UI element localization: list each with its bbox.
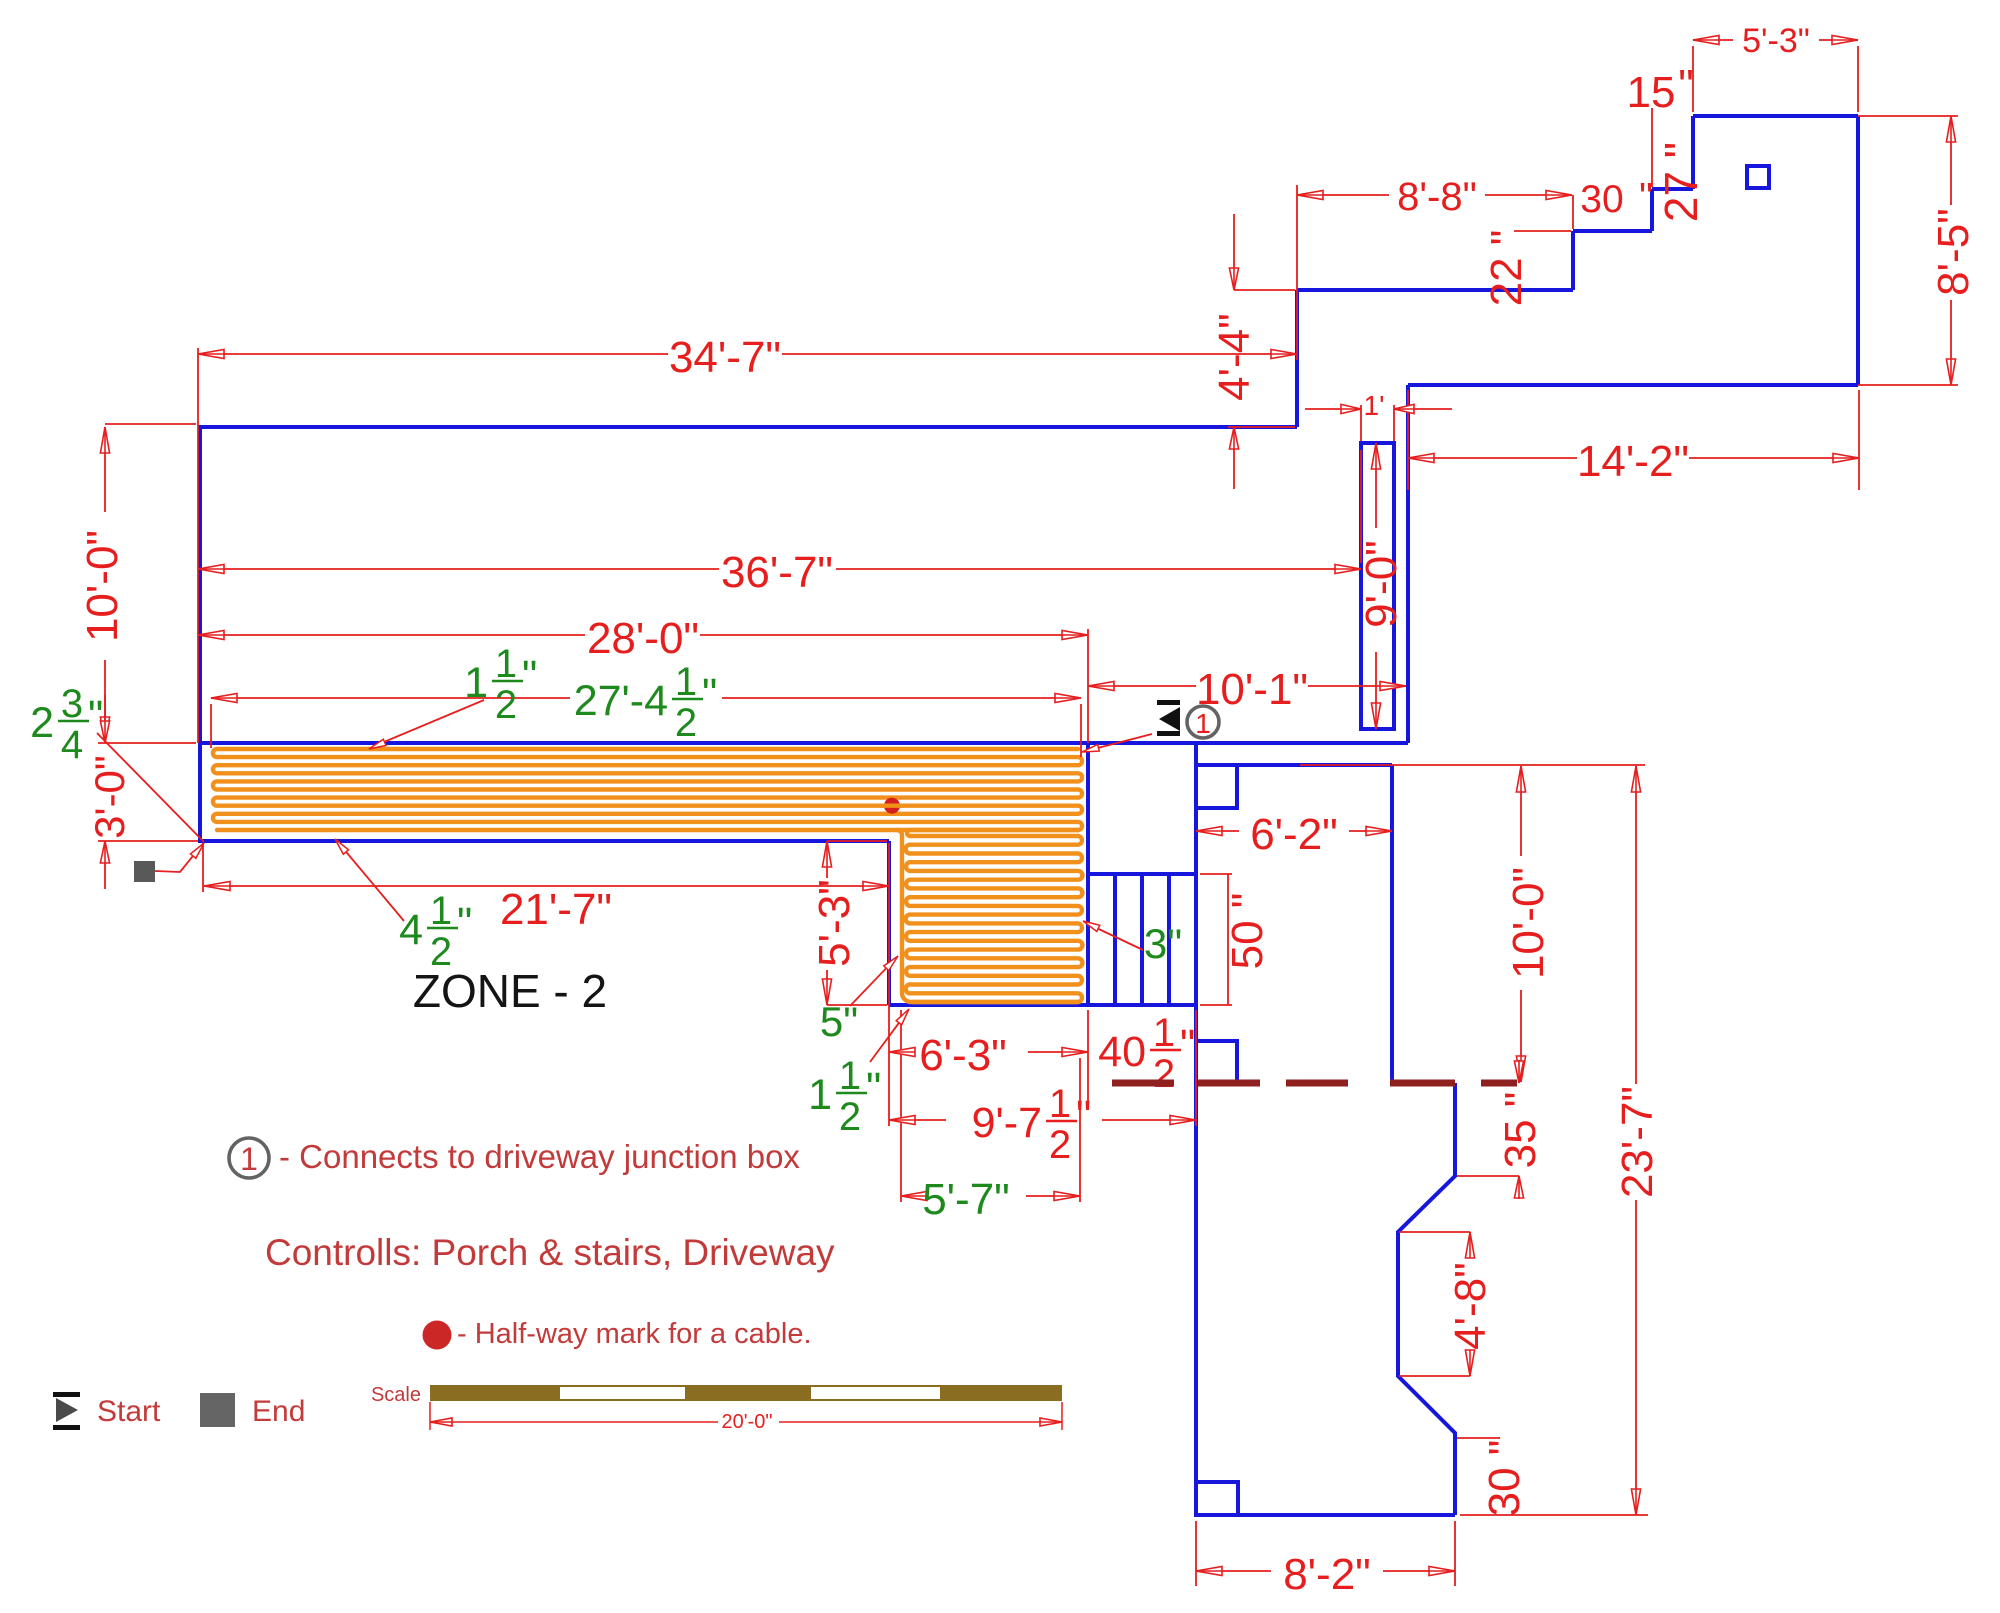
- svg-text:Controlls: Porch & stairs, Dri: Controlls: Porch & stairs, Driveway: [265, 1232, 835, 1273]
- svg-text:28'-0": 28'-0": [587, 614, 699, 663]
- svg-text:10'-0": 10'-0": [78, 530, 127, 642]
- cable start marker at junction (triangle with bars): [1157, 700, 1180, 736]
- svg-text:21'-7": 21'-7": [500, 885, 612, 934]
- extension line: x=1361 chimney left for 36-7: [1360, 450, 1362, 563]
- svg-text:End: End: [252, 1395, 305, 1428]
- heating cable: L-extension serpentine: [906, 830, 1083, 1002]
- svg-text:4'-8": 4'-8": [1446, 1262, 1495, 1350]
- heating cable: vertical feed line and bottom bend: [897, 830, 1078, 1002]
- extension ticks for 1ft chimney dim: [1360, 405, 1362, 441]
- note: circled 1 connects to driveway junction box: [229, 1138, 269, 1178]
- dimension 8'-2": [1196, 1570, 1271, 1572]
- wall: top edge of upper-left rectangle: [198, 425, 1297, 429]
- extension ticks for 8-5: [1858, 115, 1958, 117]
- svg-text:1: 1: [495, 642, 517, 686]
- svg-text:1: 1: [1195, 708, 1211, 739]
- svg-text:8'-2": 8'-2": [1283, 1550, 1371, 1599]
- svg-text:": ": [1180, 1021, 1195, 1069]
- wall: vertical right of big rect: [1295, 290, 1299, 427]
- extension line: y=765 top of patio: [1300, 764, 1645, 766]
- extension ticks for 14-2: [1407, 390, 1409, 490]
- svg-text:27'-4: 27'-4: [574, 677, 668, 725]
- scale dimension 20'-0": [429, 1402, 431, 1430]
- wall: divider left of stairs: [1086, 743, 1090, 1005]
- extension line: x=1080 for 5-7: [1079, 1058, 1081, 1202]
- svg-text:14'-2": 14'-2": [1577, 437, 1689, 486]
- svg-text:2: 2: [30, 699, 54, 747]
- svg-text:2: 2: [1153, 1052, 1175, 1096]
- extension line: x=901 for 5-7: [900, 1010, 902, 1202]
- wall: driveway right side with notch: [1398, 1083, 1455, 1515]
- dimension 36'-7": [198, 568, 719, 570]
- svg-text:20'-0": 20'-0": [722, 1411, 773, 1433]
- svg-text:1: 1: [240, 1141, 258, 1177]
- wall: left edge (upper rect + porch): [198, 425, 202, 841]
- stairs top edge: [1088, 872, 1196, 876]
- dimension 35 " (rotated, outside arrows): [1518, 1060, 1520, 1083]
- dimension 4'-8" (rotated): [1469, 1232, 1471, 1258]
- legend: end symbol: [200, 1393, 235, 1427]
- extension tick y=231 for 22in: [1514, 230, 1571, 232]
- svg-text:35 ": 35 ": [1496, 1092, 1545, 1169]
- svg-text:6'-3": 6'-3": [919, 1031, 1007, 1080]
- svg-text:4: 4: [61, 723, 83, 767]
- dimension 9'-7 1/2": [889, 1119, 946, 1121]
- dimension 10'-0" right (rotated): [1520, 766, 1522, 856]
- extension line: x=1088 for 28-0 / 10-1: [1087, 629, 1089, 743]
- svg-text:": ": [457, 899, 472, 947]
- extension tick y=743 left: [98, 742, 196, 744]
- extension line: x=1088 for 6-3/40.5: [1087, 1010, 1089, 1105]
- wall: right edge of upper-right room: [1856, 116, 1860, 385]
- dimension 34'-7": [198, 353, 668, 355]
- svg-text:ZONE - 2: ZONE - 2: [413, 965, 607, 1017]
- wall: 30in step: [1650, 189, 1654, 231]
- extension tick y=841 left: [98, 840, 198, 842]
- extension line: x=1196 for 9-7.5: [1195, 1010, 1197, 1126]
- legend: start symbol: [53, 1392, 80, 1397]
- cable end marker (gray square) with leader: [134, 861, 155, 882]
- svg-text:9'-7: 9'-7: [972, 1099, 1042, 1147]
- extension ticks for 4-8: [1399, 1231, 1470, 1233]
- svg-text:": ": [1678, 61, 1694, 110]
- svg-text:1: 1: [839, 1054, 861, 1098]
- window marker: small square in upper-right room: [1747, 166, 1769, 188]
- svg-text:30 ": 30 ": [1480, 1440, 1529, 1517]
- extension line x=1573 for 8-8: [1572, 195, 1574, 229]
- svg-text:Scale: Scale: [371, 1384, 421, 1406]
- extension line x=1652 for 15in: [1651, 108, 1653, 187]
- extension tick y=427 left: [105, 423, 196, 425]
- dimension 6'-3": [889, 1051, 902, 1053]
- pillar box middle: [1196, 1041, 1237, 1083]
- extension ticks for 8-2: [1195, 1521, 1197, 1586]
- svg-text:- Connects to driveway junctio: - Connects to driveway junction box: [279, 1138, 800, 1175]
- heating cable: porch top band serpentine: [213, 749, 1082, 830]
- pillar box bottom: [1196, 1482, 1238, 1515]
- svg-text:3: 3: [61, 682, 83, 726]
- svg-text:5'-3": 5'-3": [1742, 22, 1810, 60]
- svg-text:15: 15: [1627, 68, 1676, 117]
- svg-text:1: 1: [464, 659, 488, 707]
- svg-text:2: 2: [675, 701, 697, 745]
- stair tread line 1: [1113, 874, 1117, 1005]
- extension ticks for 5-3 top: [1692, 46, 1694, 112]
- dimension 5'-7" (green): [901, 1195, 906, 1197]
- wall: L-extension left edge: [887, 841, 891, 1005]
- extension line: x=1297 step corner: [1296, 185, 1298, 360]
- dimension 8'-8": [1297, 194, 1389, 196]
- svg-text:": ": [88, 692, 103, 740]
- svg-text:23'-7": 23'-7": [1613, 1086, 1662, 1198]
- dimension 6'-2": [1196, 830, 1239, 832]
- dimension 9'-0" (chimney, rotated): [1375, 443, 1377, 528]
- junction circle 1 at porch: [1187, 706, 1219, 738]
- svg-text:1: 1: [1049, 1082, 1071, 1126]
- dimension 5'-3" (rotated, porch L height): [826, 841, 828, 878]
- half-way mark red dot on cable: [884, 798, 900, 814]
- wall: 22in step: [1571, 231, 1575, 290]
- leader from junction marker to cable start: [1086, 734, 1152, 751]
- svg-text:1': 1': [1364, 390, 1385, 421]
- svg-text:3'-0": 3'-0": [86, 755, 133, 839]
- wall: long step run: [1297, 288, 1573, 292]
- svg-text:1: 1: [1153, 1011, 1175, 1055]
- svg-text:40: 40: [1098, 1028, 1146, 1076]
- svg-text:10'-1": 10'-1": [1196, 665, 1308, 714]
- extension tick y=1176 for 35in: [1457, 1175, 1519, 1177]
- extension line: x=203 below porch corner for 21-7: [202, 843, 204, 892]
- dimension 23'-7" (rotated): [1635, 766, 1637, 1084]
- wall: vertical from upper-right room down to porch: [1406, 385, 1410, 743]
- svg-text:30: 30: [1580, 178, 1623, 221]
- pillar box top: [1196, 765, 1237, 808]
- svg-text:": ": [702, 670, 717, 718]
- dimension 8'-5" (rotated): [1950, 116, 1952, 205]
- extension line: x=889 for 21-7/9-7.5: [888, 843, 890, 1126]
- stair tread line 3: [1167, 874, 1171, 1005]
- dimension 50" (stairs bracket, rotated): [1227, 874, 1229, 1005]
- svg-text:5": 5": [820, 998, 858, 1045]
- svg-text:1: 1: [808, 1071, 832, 1119]
- extension line: left edge x=198: [197, 348, 199, 743]
- extension line: x=211 cable left for 27-4.5: [210, 704, 212, 748]
- svg-text:34'-7": 34'-7": [669, 333, 781, 382]
- dimension 4'-4" (rotated, outside arrows): [1233, 214, 1235, 290]
- svg-text:8'-8": 8'-8": [1397, 175, 1477, 219]
- wall: upper patio right edge: [1390, 765, 1394, 1083]
- svg-text:- Half-way mark for a cable.: - Half-way mark for a cable.: [457, 1318, 812, 1350]
- dimension 28'-0": [198, 634, 585, 636]
- svg-text:5'-7": 5'-7": [922, 1175, 1010, 1224]
- wall: porch top edge: [198, 741, 1408, 745]
- svg-text:50 ": 50 ": [1223, 893, 1272, 970]
- extension tick y=1005 for 5-3: [827, 1004, 887, 1006]
- extension tick y=427 for 4-4: [1228, 426, 1295, 428]
- svg-text:4: 4: [399, 906, 423, 954]
- extension line: x=1081 cable right for 27-4.5: [1080, 704, 1082, 757]
- svg-text:22 ": 22 ": [1482, 230, 1531, 307]
- extension tick y=841 for 5-3: [827, 840, 887, 842]
- dimension 10'-1": [1088, 685, 1196, 687]
- svg-text:": ": [1076, 1092, 1091, 1140]
- extension tick y=290 for 4-4: [1234, 289, 1295, 291]
- extension tick y=1438 for 30in bottom: [1457, 1437, 1500, 1439]
- svg-text:2: 2: [1049, 1123, 1071, 1167]
- wall: driveway bottom edge: [1196, 1513, 1455, 1517]
- svg-text:2: 2: [495, 683, 517, 727]
- dashed zone boundary line: [1112, 1080, 1174, 1087]
- wall: short edge under dashed zone line: [1392, 1081, 1455, 1085]
- dimension 21'-7": [204, 885, 889, 887]
- svg-text:3": 3": [1144, 920, 1182, 967]
- svg-text:36'-7": 36'-7": [721, 548, 833, 597]
- wall: upper patio top edge: [1196, 763, 1392, 767]
- svg-text:4'-4": 4'-4": [1210, 313, 1259, 401]
- dimension 1' (chimney width, outside arrows): [1305, 408, 1361, 410]
- svg-text:": ": [1639, 176, 1653, 219]
- stair tread line 2: [1140, 874, 1144, 1005]
- dimension 5'-3" top: [1693, 39, 1733, 41]
- svg-text:": ": [522, 652, 537, 700]
- wall: porch bottom edge: [198, 839, 889, 843]
- svg-text:27 ": 27 ": [1655, 142, 1707, 222]
- svg-text:Start: Start: [97, 1395, 161, 1428]
- wall: bottom edge under stairs landing: [889, 1003, 1196, 1007]
- svg-text:10'-0": 10'-0": [1504, 867, 1553, 979]
- extension tick y=1515: [1460, 1514, 1648, 1516]
- svg-text:5'-3": 5'-3": [810, 879, 859, 967]
- note: half-way mark legend: [423, 1321, 452, 1350]
- svg-text:1: 1: [675, 660, 697, 704]
- dimension 3'-0" left (rotated, outside arrows): [104, 695, 106, 743]
- wall: bottom edge of upper-right room: [1408, 383, 1858, 387]
- wall: 15in/27in step: [1691, 116, 1695, 189]
- dimension 27'-4 1/2" (green cable width): [211, 697, 570, 699]
- chimney: narrow 1ft x 9ft rectangle: [1361, 443, 1394, 729]
- svg-text:2: 2: [839, 1095, 861, 1139]
- svg-text:8'-5": 8'-5": [1929, 208, 1978, 296]
- svg-text:1: 1: [430, 889, 452, 933]
- dimension 10'-0" left (rotated): [104, 427, 106, 512]
- svg-text:6'-2": 6'-2": [1250, 810, 1338, 859]
- svg-text:": ": [866, 1064, 881, 1112]
- wall: long right vertical through stairs and patio: [1194, 743, 1198, 1515]
- dimension 14'-2": [1408, 457, 1577, 459]
- svg-text:9'-0": 9'-0": [1357, 540, 1406, 628]
- wall: top edge of upper-right room: [1693, 114, 1858, 118]
